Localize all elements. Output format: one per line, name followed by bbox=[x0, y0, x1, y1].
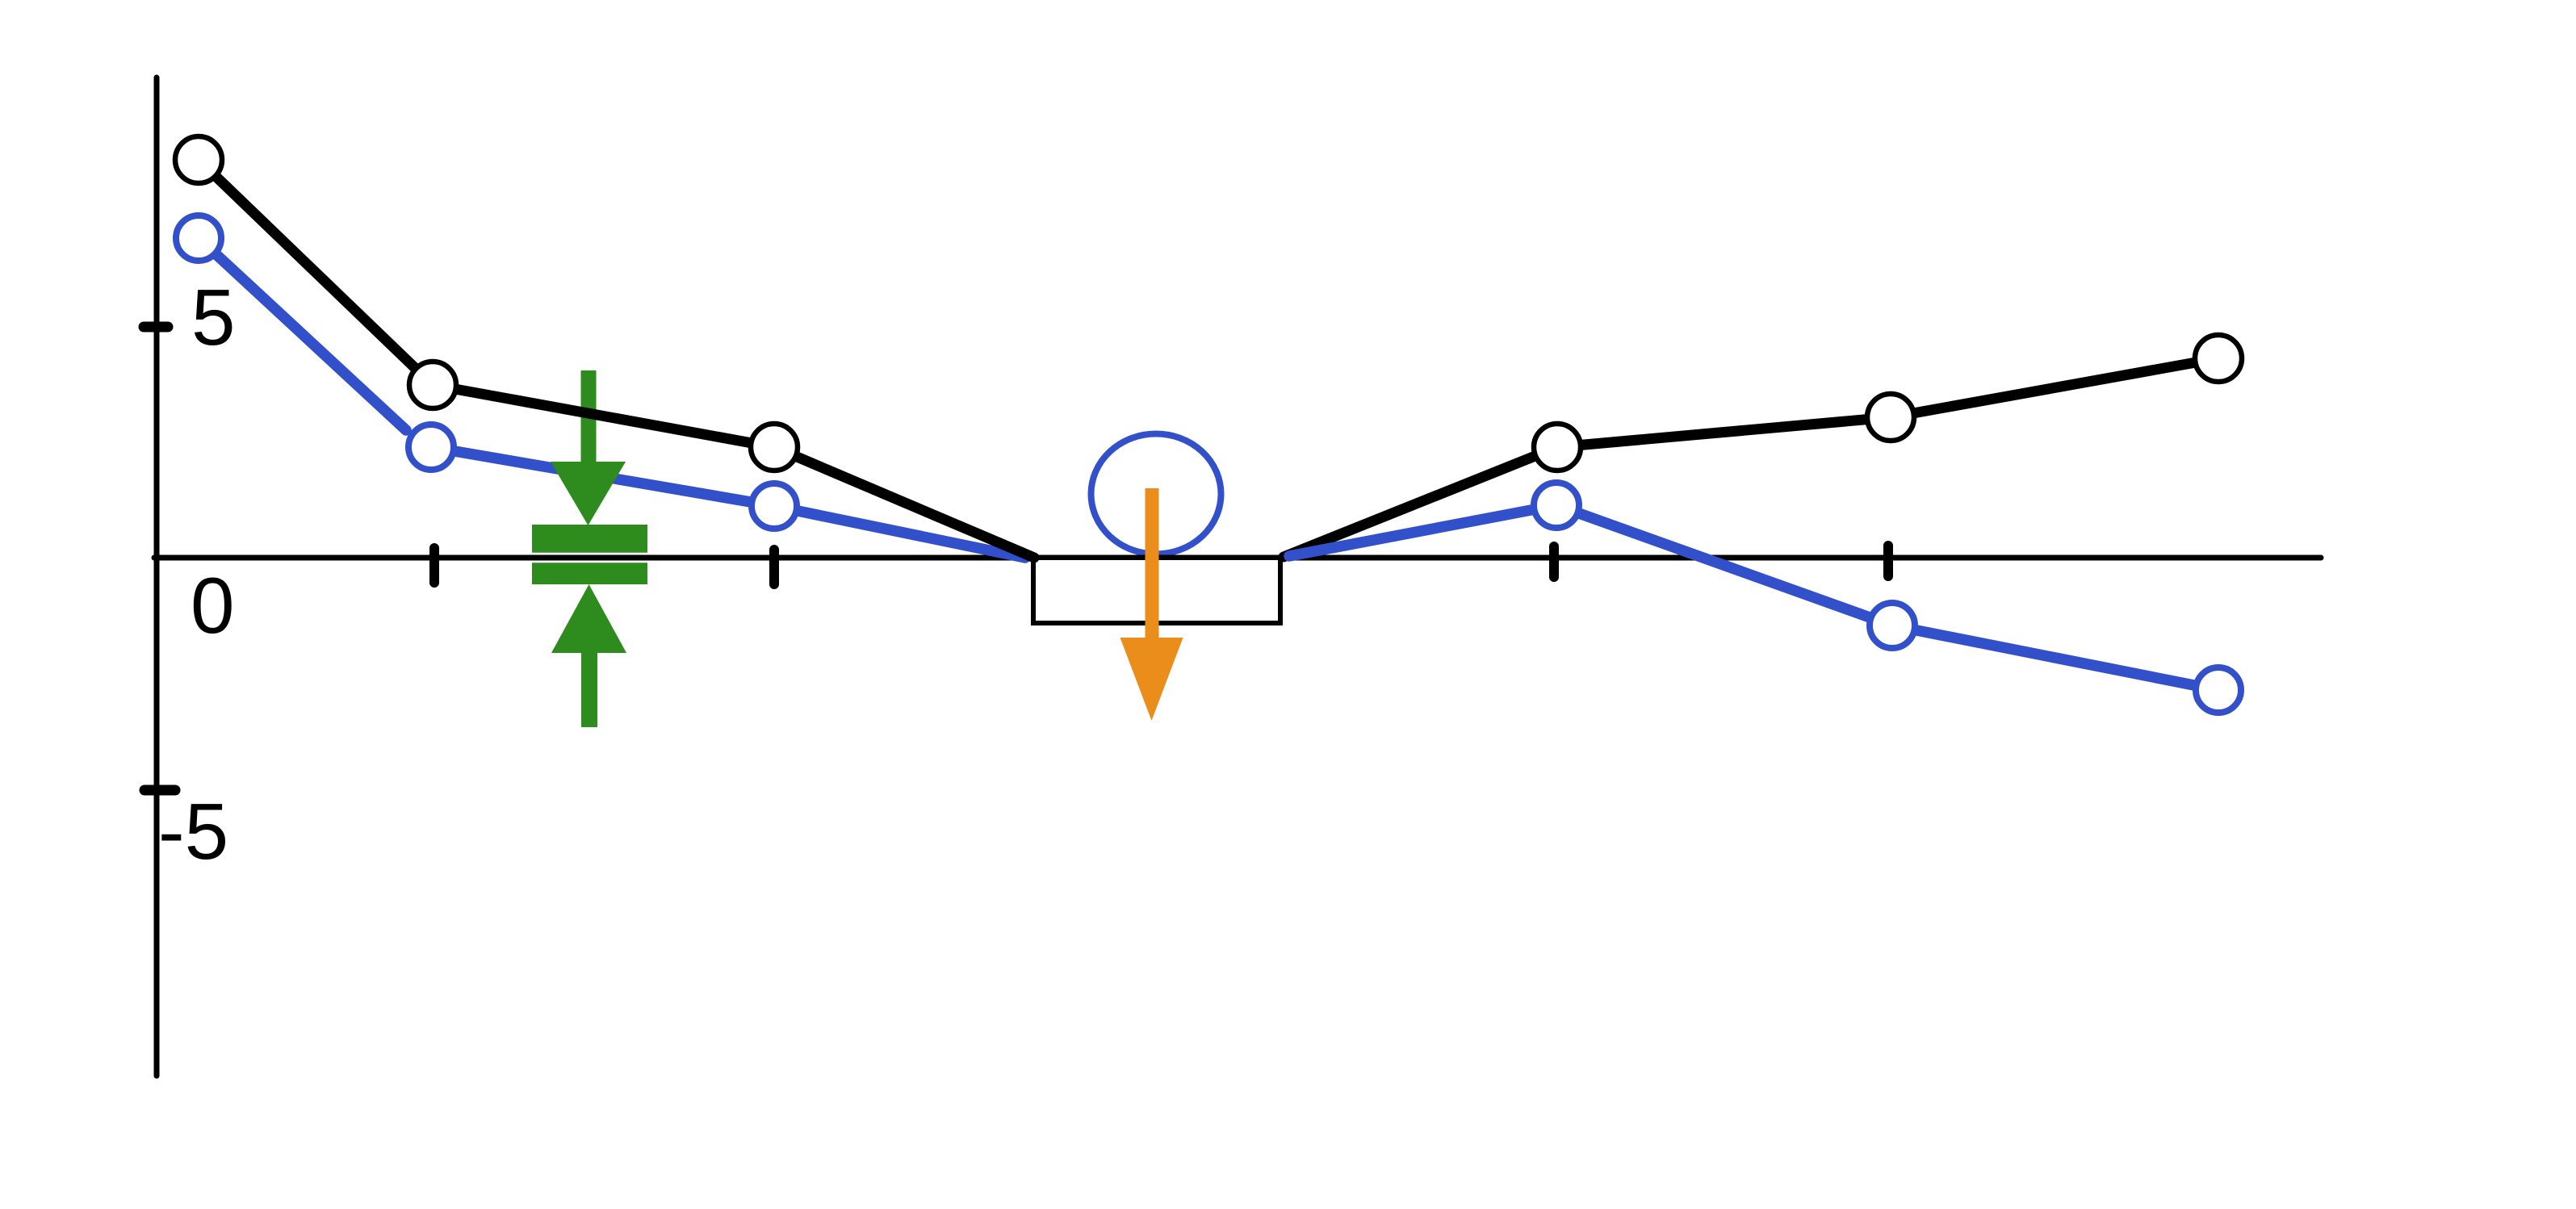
blue markers bbox=[176, 215, 221, 261]
y tick +5 bbox=[144, 322, 168, 333]
x tick 2 bbox=[769, 550, 779, 584]
green down arrow shaft bbox=[581, 370, 597, 467]
x tick 1 bbox=[429, 548, 439, 583]
svg-text:0: 0 bbox=[191, 561, 235, 650]
green down arrow head bbox=[551, 462, 626, 525]
blue series right segment bbox=[1289, 505, 2218, 690]
blue series left segment part 1 (stops short of marker) bbox=[199, 238, 406, 430]
black series right segment bbox=[1284, 358, 2218, 557]
x axis bbox=[154, 555, 2321, 561]
white plate rectangle under axis bbox=[1033, 558, 1280, 623]
y tick -5 bbox=[145, 785, 175, 796]
green support rectangle bbox=[532, 525, 647, 584]
axis white casing over green support bbox=[526, 553, 654, 563]
x tick 4 bbox=[1883, 546, 1893, 576]
black markers bbox=[175, 136, 222, 183]
big blue circle (roller) bbox=[1091, 434, 1221, 554]
y axis bbox=[154, 77, 160, 1076]
blue series left segment part 2 bbox=[431, 447, 1025, 558]
green up arrow head bbox=[551, 584, 626, 653]
svg-text:5: 5 bbox=[191, 273, 236, 362]
black series left segment bbox=[199, 160, 1034, 558]
orange arrow head bbox=[1120, 638, 1183, 721]
green up arrow shaft bbox=[581, 651, 597, 727]
svg-text:-5: -5 bbox=[158, 787, 228, 876]
x tick 3 bbox=[1549, 546, 1559, 577]
orange arrow shaft bbox=[1146, 488, 1159, 639]
